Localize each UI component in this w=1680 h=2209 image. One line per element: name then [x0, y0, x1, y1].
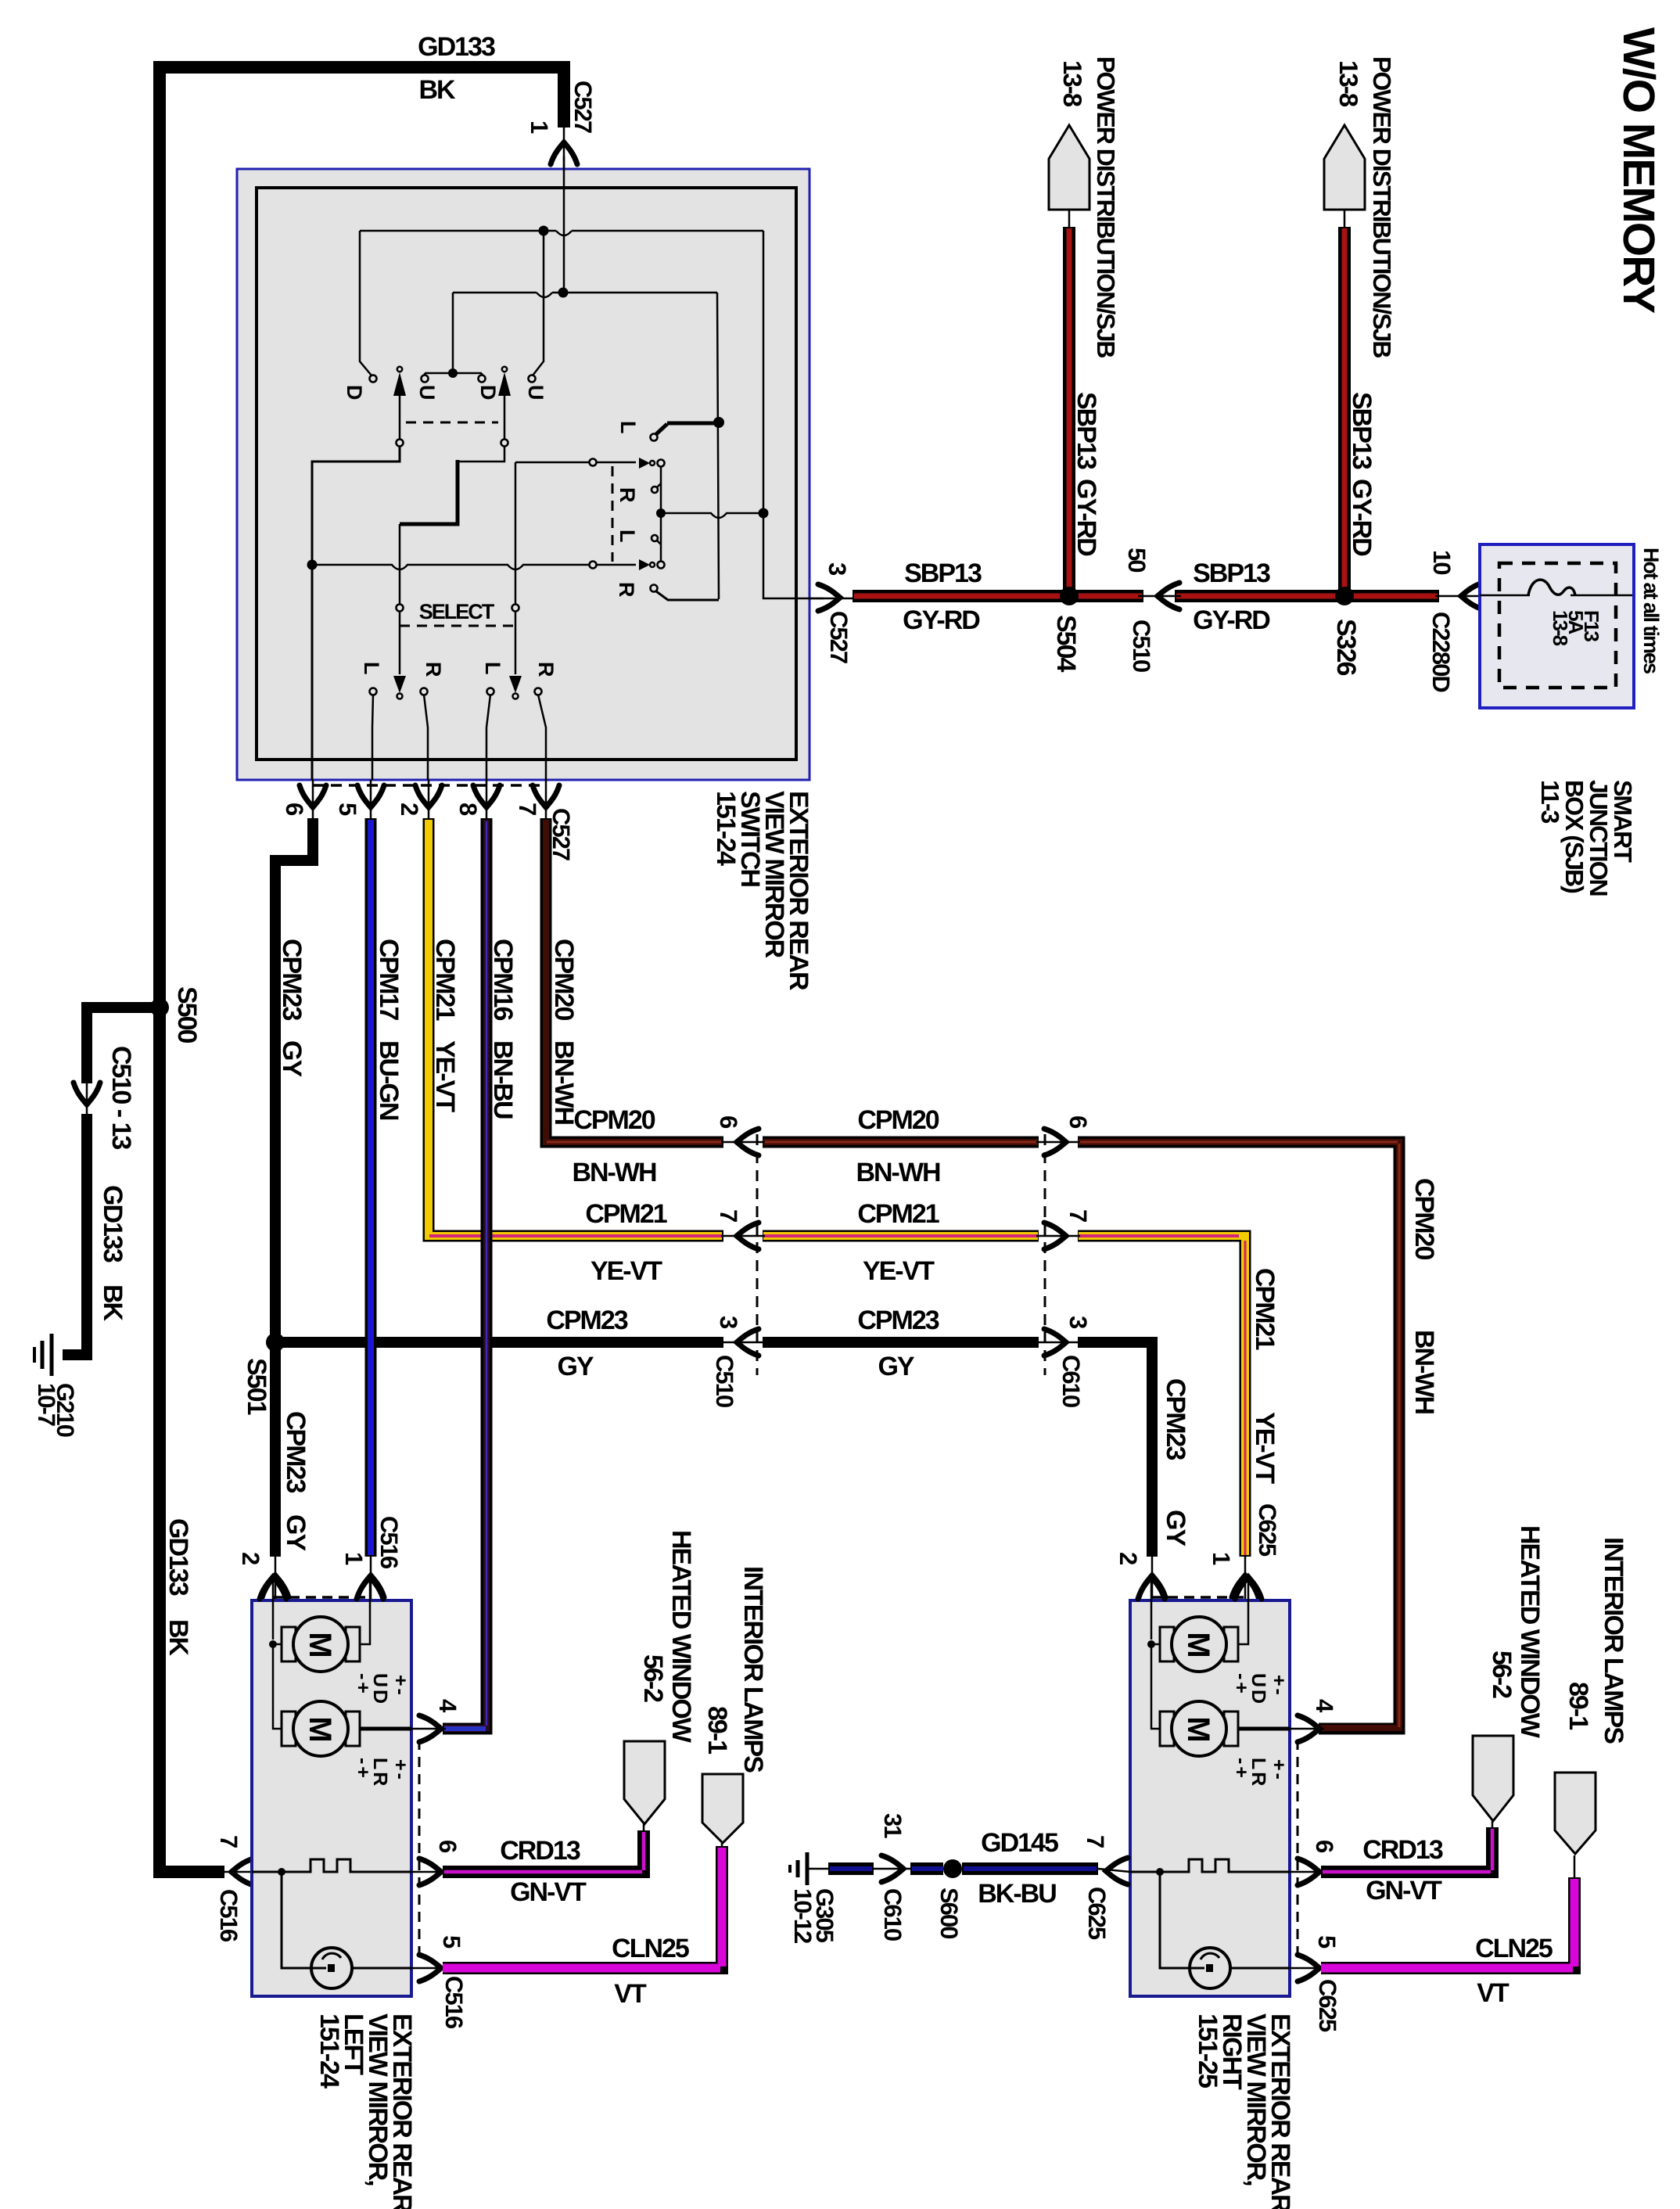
svg-text:GY-RD: GY-RD — [1347, 479, 1377, 556]
svg-text:7: 7 — [215, 1835, 242, 1848]
svg-text:GY: GY — [277, 1040, 307, 1077]
svg-text:INTERIOR LAMPS: INTERIOR LAMPS — [738, 1566, 768, 1773]
svg-text:CPM17: CPM17 — [374, 939, 404, 1020]
svg-text:CPM21: CPM21 — [585, 1199, 666, 1229]
rocker pointer 1 — [397, 367, 402, 372]
connector arrows on power run — [818, 584, 840, 611]
wire S500 to ground — [87, 1008, 160, 1083]
svg-text:C510: C510 — [1128, 620, 1155, 672]
heated glass element — [1130, 1859, 1290, 1872]
svg-text:CPM21: CPM21 — [857, 1199, 939, 1229]
wire CLN25 VT left — [443, 1846, 722, 1968]
svg-text:- +: - + — [1230, 1673, 1252, 1693]
svg-text:R: R — [616, 487, 639, 502]
svg-text:10: 10 — [1428, 550, 1456, 574]
wire D1 arm riser — [360, 231, 372, 375]
svg-text:YE-VT: YE-VT — [430, 1040, 460, 1112]
svg-text:CRD13: CRD13 — [500, 1836, 580, 1866]
contact R lower — [651, 585, 658, 592]
wire GD133 BK ground run — [160, 67, 564, 1872]
svg-text:CPM21: CPM21 — [430, 939, 460, 1020]
splice S500 — [150, 998, 169, 1017]
svg-text:C625: C625 — [1254, 1503, 1281, 1557]
rail CPM23 GY — [275, 1337, 723, 1348]
svg-text:6: 6 — [715, 1115, 742, 1129]
svg-text:GN-VT: GN-VT — [1366, 1876, 1442, 1905]
wire GD145 BK-BU — [807, 1868, 831, 1870]
svg-text:50: 50 — [1123, 548, 1151, 572]
svg-text:+ -: + - — [389, 1759, 411, 1780]
wire U2 arm riser — [533, 235, 544, 375]
svg-text:CPM23: CPM23 — [546, 1306, 627, 1335]
svg-text:5: 5 — [1313, 1935, 1341, 1949]
svg-text:SBP13: SBP13 — [904, 559, 982, 588]
svg-text:7: 7 — [1064, 1209, 1092, 1222]
wires select contacts to pins — [372, 695, 373, 780]
node rail upper pointer — [515, 462, 636, 464]
svg-text:D: D — [476, 385, 500, 400]
connector C516 pin7 left mirror — [224, 1871, 252, 1873]
svg-text:CPM23: CPM23 — [857, 1306, 939, 1335]
svg-text:M: M — [303, 1716, 337, 1740]
svg-text:CPM20: CPM20 — [1409, 1178, 1439, 1259]
svg-text:D: D — [343, 385, 366, 400]
svg-text:89-1: 89-1 — [1563, 1682, 1593, 1729]
wire CPM16 BN-BU dark — [443, 818, 486, 1729]
wire CRD13 GN-VT left — [443, 1830, 644, 1872]
svg-text:SBP13: SBP13 — [1072, 392, 1101, 469]
power distribution flag left — [1049, 125, 1089, 210]
svg-text:6: 6 — [281, 803, 308, 816]
svg-text:VT: VT — [1477, 1978, 1509, 2008]
flag interior lamps left — [702, 1774, 743, 1843]
svg-text:89-1: 89-1 — [702, 1706, 732, 1754]
svg-text:2: 2 — [396, 803, 423, 815]
svg-text:CLN25: CLN25 — [612, 1934, 689, 1963]
wire CRD13 GN-VT right — [1321, 1827, 1492, 1872]
node rail2 — [453, 293, 717, 297]
svg-text:HEATED WINDOW: HEATED WINDOW — [666, 1530, 696, 1744]
svg-text:1: 1 — [340, 1552, 368, 1565]
motor U/D — [282, 1627, 296, 1661]
svg-text:10-12: 10-12 — [789, 1888, 817, 1943]
svg-text:C610: C610 — [879, 1888, 906, 1941]
motor U/D — [1160, 1627, 1174, 1661]
svg-text:- +: - + — [1230, 1758, 1252, 1777]
wire CPM23 GY pin6 black — [275, 818, 313, 1557]
connector C527 bottom interface — [313, 784, 547, 787]
svg-text:8: 8 — [454, 803, 482, 816]
svg-text:BN-WH: BN-WH — [1409, 1330, 1439, 1414]
svg-text:CRD13: CRD13 — [1362, 1835, 1443, 1865]
fuse F13 — [1480, 594, 1530, 597]
SELECT switch — [397, 605, 404, 612]
svg-text:CLN25: CLN25 — [1475, 1934, 1553, 1963]
svg-text:- +: - + — [352, 1758, 374, 1777]
svg-text:CPM20: CPM20 — [857, 1105, 939, 1135]
svg-text:3: 3 — [715, 1316, 742, 1329]
svg-text:GY: GY — [878, 1352, 914, 1381]
svg-text:L: L — [616, 530, 639, 542]
svg-text:W/O MEMORY: W/O MEMORY — [1614, 27, 1664, 314]
svg-text:BN-BU: BN-BU — [488, 1040, 518, 1119]
svg-text:CPM21: CPM21 — [1250, 1268, 1280, 1349]
wire U1-D2 bridge riser — [425, 293, 482, 375]
exterior rear view mirror left box — [252, 1600, 411, 1996]
wire selector bus right / pin3 exit — [763, 231, 824, 598]
svg-text:Hot at all times: Hot at all times — [1639, 548, 1663, 673]
exterior rear view mirror right box — [1130, 1600, 1290, 1996]
svg-text:151-24: 151-24 — [711, 791, 741, 866]
svg-text:GD133: GD133 — [418, 32, 495, 62]
svg-text:CPM23: CPM23 — [277, 939, 307, 1020]
svg-text:C516: C516 — [215, 1889, 242, 1942]
wire selector bus left — [717, 293, 719, 599]
svg-text:S500: S500 — [172, 986, 202, 1043]
svg-text:R: R — [615, 582, 638, 597]
svg-text:C527: C527 — [825, 611, 853, 663]
svg-text:L: L — [360, 662, 383, 674]
wire CPM20 BN-WH dark brown — [546, 818, 723, 1142]
svg-text:SELECT: SELECT — [419, 600, 495, 623]
svg-text:HEATED WINDOW: HEATED WINDOW — [1515, 1525, 1545, 1739]
svg-text:YE-VT: YE-VT — [591, 1256, 662, 1286]
ground G210 — [50, 1334, 54, 1376]
svg-text:3: 3 — [824, 562, 851, 576]
flag interior lamps right — [1555, 1773, 1596, 1854]
lamp — [1160, 1872, 1190, 1968]
svg-text:C2280D: C2280D — [1427, 612, 1455, 692]
svg-text:POWER DISTRIBUTION/SJB: POWER DISTRIBUTION/SJB — [1368, 56, 1396, 357]
node rail lower pointer — [312, 565, 636, 569]
svg-text:+ -: + - — [389, 1675, 411, 1695]
svg-text:BK: BK — [418, 75, 456, 105]
node rail1 — [360, 231, 763, 235]
svg-text:5: 5 — [438, 1935, 465, 1949]
wire CPM17 BU-GN blue — [365, 818, 377, 1557]
select contacts L R L R — [370, 688, 377, 695]
svg-text:L: L — [481, 662, 504, 674]
contact L upper — [651, 434, 658, 441]
svg-text:13-8: 13-8 — [1058, 60, 1087, 107]
svg-text:GD133: GD133 — [163, 1518, 193, 1596]
svg-text:GD145: GD145 — [981, 1828, 1058, 1858]
splice S326 — [1335, 587, 1354, 605]
ground G305 — [806, 1852, 809, 1885]
svg-text:VT: VT — [614, 1979, 647, 2009]
svg-text:13-8: 13-8 — [1334, 60, 1363, 107]
svg-text:C516: C516 — [375, 1516, 403, 1569]
splice S504 — [1060, 587, 1079, 605]
motor L/R — [282, 1712, 296, 1746]
wire left stem to pin6 — [312, 446, 400, 780]
svg-text:CPM20: CPM20 — [549, 939, 579, 1020]
svg-text:SBP13: SBP13 — [1347, 392, 1377, 469]
svg-text:2: 2 — [1115, 1552, 1142, 1564]
svg-text:BU-GN: BU-GN — [374, 1040, 404, 1120]
svg-text:GY-RD: GY-RD — [903, 605, 980, 635]
svg-text:C527: C527 — [569, 81, 597, 133]
svg-text:INTERIOR LAMPS: INTERIOR LAMPS — [1599, 1537, 1628, 1744]
motor L/R — [1160, 1712, 1174, 1746]
svg-text:BN-WH: BN-WH — [856, 1158, 940, 1187]
svg-text:C510 - 13: C510 - 13 — [106, 1046, 136, 1149]
svg-text:YE-VT: YE-VT — [1250, 1412, 1280, 1484]
svg-text:GY: GY — [281, 1514, 311, 1551]
splice S501 — [266, 1333, 285, 1352]
svg-text:2: 2 — [237, 1552, 264, 1564]
wire SBP13 vertical S504 — [1063, 227, 1075, 593]
svg-text:C625: C625 — [1314, 1979, 1341, 2032]
wire right stem staircase — [458, 446, 504, 462]
svg-text:13-8: 13-8 — [1549, 610, 1572, 646]
svg-text:S600: S600 — [935, 1888, 963, 1938]
svg-text:YE-VT: YE-VT — [863, 1256, 935, 1286]
svg-text:C625: C625 — [1083, 1887, 1111, 1940]
svg-text:7: 7 — [1082, 1835, 1109, 1848]
svg-text:S501: S501 — [242, 1358, 271, 1414]
svg-text:R: R — [422, 662, 445, 677]
svg-text:GD133: GD133 — [98, 1185, 127, 1263]
svg-text:U: U — [524, 385, 547, 399]
svg-text:CPM16: CPM16 — [488, 939, 518, 1020]
svg-text:BK: BK — [98, 1284, 127, 1322]
wire SBP13 horizontal run — [853, 590, 1143, 602]
svg-text:11-3: 11-3 — [1536, 780, 1564, 823]
svg-text:7: 7 — [715, 1209, 742, 1222]
flag heated window right — [1473, 1736, 1513, 1821]
svg-text:C516: C516 — [440, 1976, 468, 2029]
svg-text:BN-WH: BN-WH — [549, 1040, 579, 1125]
selector mid contacts — [639, 458, 650, 469]
heated glass element — [252, 1859, 411, 1872]
mech link selector — [612, 466, 614, 562]
svg-text:GY: GY — [1161, 1510, 1190, 1546]
wire CPM21 YE-VT yellow — [429, 818, 723, 1236]
svg-text:+ -: + - — [1268, 1675, 1290, 1695]
switch contacts D U D U — [370, 375, 377, 383]
svg-text:6: 6 — [434, 1840, 461, 1853]
svg-text:6: 6 — [1064, 1115, 1092, 1129]
svg-text:M: M — [1181, 1716, 1215, 1740]
wire C527 pin1 feed — [563, 156, 565, 293]
svg-text:3: 3 — [1064, 1316, 1092, 1329]
lamp — [282, 1872, 311, 1968]
svg-text:56-2: 56-2 — [1487, 1650, 1517, 1698]
wire SBP13 vertical S326 — [1338, 227, 1351, 593]
svg-text:M: M — [1181, 1632, 1215, 1656]
svg-text:BK: BK — [163, 1619, 193, 1657]
svg-text:M: M — [303, 1632, 337, 1656]
exterior rear view mirror switch box — [237, 169, 809, 780]
svg-text:6: 6 — [1311, 1840, 1338, 1853]
svg-text:56-2: 56-2 — [638, 1654, 668, 1702]
svg-text:S504: S504 — [1051, 615, 1081, 672]
svg-text:C610: C610 — [1057, 1355, 1085, 1407]
svg-text:151-24: 151-24 — [314, 2013, 344, 2089]
svg-text:31: 31 — [879, 1813, 906, 1838]
flag heated window left — [624, 1741, 665, 1824]
svg-text:C510: C510 — [711, 1355, 738, 1407]
svg-text:R: R — [534, 662, 558, 677]
wire select right riser — [515, 462, 517, 604]
svg-text:S326: S326 — [1331, 619, 1361, 675]
svg-text:BN-WH: BN-WH — [572, 1158, 656, 1187]
svg-text:CPM20: CPM20 — [573, 1105, 655, 1135]
connector boundary dashes — [756, 1134, 759, 1375]
svg-text:POWER DISTRIBUTION/SJB: POWER DISTRIBUTION/SJB — [1092, 56, 1120, 357]
wire CLN25 VT right — [1321, 1877, 1574, 1968]
svg-text:GY-RD: GY-RD — [1193, 605, 1270, 635]
svg-text:7: 7 — [514, 803, 541, 815]
svg-text:- +: - + — [352, 1673, 374, 1693]
svg-text:CPM23: CPM23 — [1161, 1378, 1190, 1460]
svg-text:GN-VT: GN-VT — [510, 1877, 587, 1907]
svg-text:L: L — [616, 421, 640, 433]
svg-text:GY-RD: GY-RD — [1072, 479, 1101, 556]
mechanical link rockers — [406, 422, 498, 424]
svg-text:1: 1 — [526, 120, 553, 134]
rocker pointer 2 — [502, 367, 507, 372]
svg-text:5: 5 — [334, 803, 361, 816]
svg-text:BK-BU: BK-BU — [978, 1879, 1056, 1909]
svg-text:+ -: + - — [1268, 1759, 1290, 1780]
svg-text:10-7: 10-7 — [33, 1383, 60, 1426]
svg-text:U: U — [415, 385, 439, 399]
smart junction box — [1480, 544, 1634, 708]
svg-text:1: 1 — [1208, 1552, 1235, 1565]
svg-text:GY: GY — [557, 1352, 594, 1381]
svg-text:CPM23: CPM23 — [281, 1411, 311, 1492]
svg-text:SBP13: SBP13 — [1193, 559, 1270, 588]
power distribution flag right — [1324, 125, 1365, 210]
svg-text:151-25: 151-25 — [1193, 2013, 1222, 2088]
